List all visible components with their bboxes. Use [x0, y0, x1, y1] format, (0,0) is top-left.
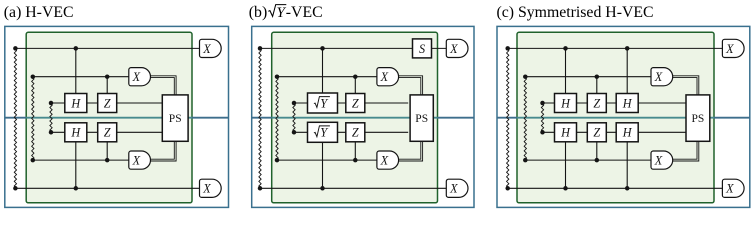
node q3 squiggle end (b): [292, 101, 297, 106]
svg-text:X: X: [725, 42, 734, 56]
measurement X on q2 (b): [377, 68, 399, 86]
measurement X on q6 (b): [446, 179, 468, 197]
wire q5 (b): [277, 159, 377, 161]
gate Z on q3 (c): [587, 94, 606, 113]
svg-text:X: X: [449, 42, 458, 56]
gate H second on q3 (c): [616, 94, 638, 113]
gate Z on q3 (b): [346, 94, 365, 113]
wire q3 (c): [543, 102, 687, 104]
node q6 squiggle end (c): [505, 186, 510, 191]
node q5 squiggle end (c): [523, 158, 528, 163]
measurement X on q1 (b): [446, 39, 468, 57]
wire q5 (c): [525, 159, 651, 161]
entangled pair squiggle 3 (a) q3-q4: [50, 103, 52, 132]
control line q5 to Z on q4 (b): [354, 142, 356, 160]
wire q3 (a): [51, 102, 162, 104]
wire q5 (a): [33, 159, 129, 161]
gate sqrtY on q4 (b): [308, 122, 338, 142]
measurement X on q5 (a): [129, 151, 151, 169]
panel (a) blue frame: [5, 26, 229, 207]
svg-text:H: H: [622, 126, 633, 140]
svg-text:Z: Z: [593, 126, 600, 140]
gate H first on q3 (c): [555, 94, 577, 113]
svg-text:X: X: [202, 182, 211, 196]
control line q6 to second H on q4 (c): [626, 142, 628, 189]
svg-text:X: X: [725, 182, 734, 196]
node q4 squiggle end (a): [49, 130, 54, 135]
gate sqrtY on q3 (b): [308, 93, 338, 113]
control line q2 to Z on q3 (a): [106, 77, 108, 94]
control dot q1 (b): [320, 46, 325, 51]
control line q2 to Z on q3 (c): [596, 77, 598, 94]
node q6 squiggle end (b): [258, 186, 263, 191]
wire q6 (c): [508, 187, 723, 189]
wire q1 (b): [260, 47, 446, 49]
classical double wire X(q2) to PS (c): [673, 76, 699, 95]
control dot q1 first (c): [563, 46, 568, 51]
measurement X on q2 (c): [651, 68, 673, 86]
wire q4 (b): [294, 131, 408, 133]
gate H first on q4 (c): [555, 123, 577, 142]
control dot q1 second (c): [625, 46, 630, 51]
svg-text:X: X: [380, 154, 389, 168]
svg-text:(b): (b): [249, 4, 267, 21]
control dot q6 first (c): [563, 186, 568, 191]
svg-text:X: X: [449, 182, 458, 196]
control line q1 to second H on q3 (c): [626, 48, 628, 93]
title (b) sqrt(Y)-VEC: [249, 4, 323, 21]
measurement X on q6 (a): [200, 179, 222, 197]
control line q5 to Z on q4 (a): [106, 142, 108, 160]
control dot q5 (c): [595, 158, 600, 163]
svg-text:H: H: [560, 96, 571, 110]
svg-text:X: X: [654, 70, 663, 84]
control dot q2 (c): [595, 74, 600, 79]
panel (a) symmetry axis line left segment: [5, 117, 26, 119]
entangled pair squiggle 3 (c) q3-q4: [541, 103, 543, 132]
measurement X on q2 (a): [129, 68, 151, 86]
panel (c) green region: [517, 32, 714, 203]
wire q4 (c): [543, 131, 687, 133]
control dot q1 (a): [74, 46, 79, 51]
control dot q6 second (c): [625, 186, 630, 191]
control dot q6 (b): [320, 186, 325, 191]
node q2 squiggle end (c): [523, 74, 528, 79]
measurement X on q1 (c): [722, 39, 744, 57]
wire q2 (c): [525, 76, 651, 78]
entangled pair squiggle 2 (b) q2-q5: [276, 77, 278, 160]
node q1 squiggle end (c): [505, 46, 510, 51]
node q3 squiggle end (a): [49, 101, 54, 106]
panel (b) symmetry axis line left segment: [252, 117, 272, 119]
entangled pair squiggle 3 (b) q3-q4: [293, 103, 295, 132]
svg-text:X: X: [132, 70, 141, 84]
entangled pair squiggle 1 (c) q1-q6: [507, 48, 509, 188]
control line q1 to H on q3 (a): [75, 48, 77, 93]
control line q6 to first H on q4 (c): [565, 142, 567, 189]
panel (c) symmetry axis line left segment: [497, 117, 517, 119]
panel (b) blue frame: [252, 26, 474, 207]
panel (b) symmetry axis line middle segment: [272, 117, 438, 119]
svg-text:X: X: [202, 42, 211, 56]
classical double wire X(q5) to PS (c): [673, 141, 699, 161]
svg-text:X: X: [132, 154, 141, 168]
measurement X on q5 (c): [651, 151, 673, 169]
svg-text:Z: Z: [593, 96, 600, 110]
panel (c) symmetry axis line middle segment: [517, 117, 714, 119]
classical double wire X(q2) to PS (b): [399, 76, 423, 95]
panel (c) blue frame: [497, 26, 750, 207]
svg-text:H: H: [70, 126, 81, 140]
svg-text:(c) Symmetrised H-VEC: (c) Symmetrised H-VEC: [497, 4, 654, 21]
control line q5 to Z on q4 (c): [596, 142, 598, 160]
svg-text:PS: PS: [415, 113, 428, 125]
gate H on q4 (a): [65, 123, 87, 142]
entangled pair squiggle 2 (a) q2-q5: [32, 77, 34, 160]
node q2 squiggle end (a): [31, 74, 36, 79]
gate Z on q4 (c): [587, 123, 606, 142]
node q1 squiggle end (b): [258, 46, 263, 51]
control dot q2 (a): [105, 74, 110, 79]
svg-text:X: X: [380, 70, 389, 84]
node q1 squiggle end (a): [13, 46, 18, 51]
panel (b) green region: [272, 32, 438, 203]
svg-text:Z: Z: [352, 96, 359, 110]
control dot q5 (b): [353, 158, 358, 163]
box PS (a): [162, 95, 188, 141]
svg-text:Z: Z: [352, 126, 359, 140]
svg-text:S: S: [419, 42, 425, 56]
gate S on q1 (b): [413, 39, 432, 58]
control line q1 to sqrtY on q3 (b): [322, 48, 324, 93]
node q4 squiggle end (b): [292, 130, 297, 135]
svg-text:PS: PS: [169, 113, 182, 125]
control dot q5 (a): [105, 158, 110, 163]
wire q3 (b): [294, 102, 408, 104]
control line q6 to sqrtY on q4 (b): [322, 142, 324, 188]
wire q2 (a): [33, 76, 129, 78]
svg-text:(a) H-VEC: (a) H-VEC: [4, 4, 74, 21]
control dot q6 (a): [74, 186, 79, 191]
box PS (c): [686, 95, 710, 141]
box PS (b): [410, 95, 433, 141]
wire q4 (a): [51, 131, 162, 133]
svg-text:Z: Z: [104, 96, 111, 110]
panel (a) symmetry axis line middle segment: [26, 117, 192, 119]
classical double wire X(q5) to PS (b): [399, 141, 423, 161]
svg-text:PS: PS: [692, 113, 705, 125]
entangled pair squiggle 2 (c) q2-q5: [524, 77, 526, 160]
node q6 squiggle end (a): [13, 186, 18, 191]
node q4 squiggle end (c): [540, 130, 545, 135]
svg-text:-VEC: -VEC: [286, 4, 323, 21]
control line q6 to H on q4 (a): [75, 142, 77, 189]
wire q6 (a): [15, 187, 199, 189]
svg-text:Z: Z: [104, 126, 111, 140]
wire q1 (c): [508, 47, 723, 49]
wire q2 (b): [277, 76, 377, 78]
entangled pair squiggle 1 (a) q1-q6: [14, 48, 16, 188]
panel (a) symmetry axis line right segment: [192, 117, 229, 119]
node q5 squiggle end (a): [31, 158, 36, 163]
panel (b) symmetry axis line right segment: [438, 117, 475, 119]
gate Z on q3 (a): [98, 94, 117, 113]
svg-text:H: H: [560, 126, 571, 140]
panel (c) symmetry axis line right segment: [714, 117, 750, 119]
control dot q2 (b): [353, 74, 358, 79]
measurement X on q1 (a): [200, 39, 222, 57]
node q5 squiggle end (b): [275, 158, 280, 163]
control line q2 to Z on q3 (b): [354, 77, 356, 94]
gate Z on q4 (a): [98, 123, 117, 142]
svg-text:H: H: [70, 96, 81, 110]
classical double wire X(q5) to PS (a): [150, 141, 176, 161]
wire q1 (a): [15, 47, 199, 49]
panel (a) green region: [26, 32, 192, 203]
node q2 squiggle end (b): [275, 74, 280, 79]
control line q1 to first H on q3 (c): [565, 48, 567, 93]
gate Z on q4 (b): [346, 123, 365, 142]
svg-text:X: X: [654, 154, 663, 168]
svg-text:H: H: [622, 96, 633, 110]
measurement X on q6 (c): [722, 179, 744, 197]
gate H second on q4 (c): [616, 123, 638, 142]
measurement X on q5 (b): [377, 151, 399, 169]
wire q6 (b): [260, 187, 446, 189]
gate H on q3 (a): [65, 94, 87, 113]
classical double wire X(q2) to PS (a): [150, 76, 176, 95]
node q3 squiggle end (c): [540, 101, 545, 106]
entangled pair squiggle 1 (b) q1-q6: [259, 48, 261, 188]
